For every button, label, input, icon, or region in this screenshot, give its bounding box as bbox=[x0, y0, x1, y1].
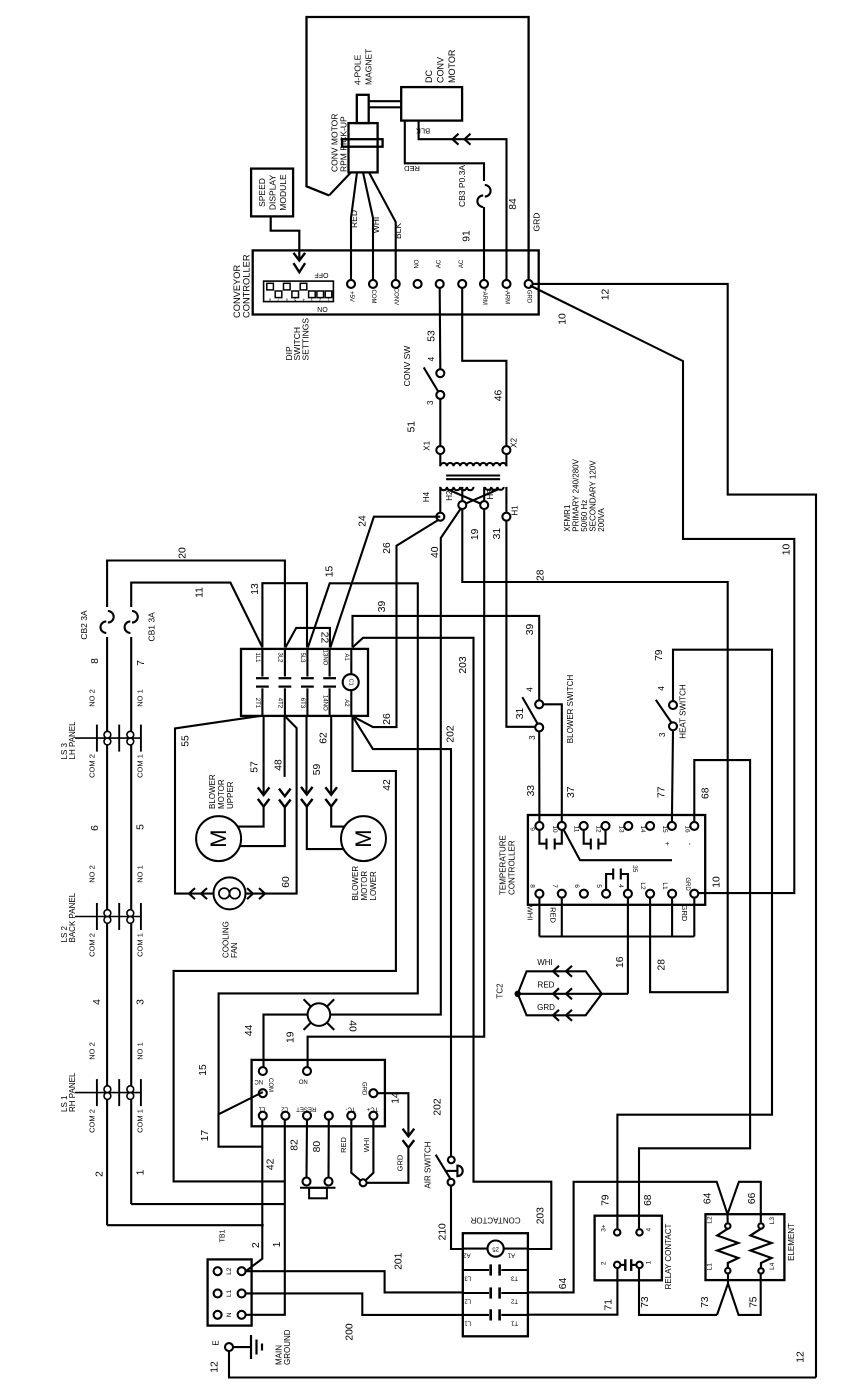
wire 82 to ignition plug bbox=[305, 1120, 308, 1178]
svg-text:COM 1: COM 1 bbox=[136, 1109, 145, 1133]
svg-text:57: 57 bbox=[250, 761, 261, 773]
motor M1 DC CONV MOTOR body bbox=[401, 87, 462, 121]
wire 22 jumper 3L2 to 13NO bbox=[286, 628, 330, 648]
wire 57 from 2T1 to upper blower motor bbox=[263, 716, 265, 795]
svg-text:48: 48 bbox=[274, 759, 285, 771]
wire 28 from XFMR H2 to temp controller L2 bbox=[462, 509, 727, 992]
temp controller terminal 11 bbox=[580, 822, 588, 830]
svg-text:64: 64 bbox=[703, 1192, 714, 1204]
svg-text:4: 4 bbox=[645, 1228, 652, 1232]
flame control terminal NC bbox=[259, 1067, 267, 1075]
limit switch LS 2 contacts right bbox=[127, 910, 134, 917]
svg-text:GRD: GRD bbox=[680, 905, 689, 922]
svg-text:9: 9 bbox=[528, 827, 535, 831]
svg-text:L1: L1 bbox=[258, 1106, 265, 1112]
element resistor L3-L4 bbox=[751, 1229, 772, 1269]
wire WHI from pick-up to controller COM bbox=[363, 172, 373, 280]
relay terminal 2 bbox=[614, 1262, 620, 1268]
relay terminal 3+ bbox=[614, 1229, 620, 1235]
wire 59 from 6T3 to lower blower motor bbox=[305, 716, 307, 795]
temp controller terminal GRD bbox=[690, 890, 698, 898]
svg-text:16: 16 bbox=[615, 956, 626, 968]
wire 73 from relay 1 to element L1 bbox=[639, 1269, 717, 1315]
svg-text:L4: L4 bbox=[769, 1262, 776, 1270]
svg-text:201: 201 bbox=[394, 1252, 405, 1269]
terminal H1 bbox=[502, 513, 510, 521]
wire RED from TC- to sense junction bbox=[351, 1120, 363, 1183]
svg-text:37: 37 bbox=[566, 786, 577, 798]
svg-text:MODULE: MODULE bbox=[278, 174, 288, 211]
svg-text:CONVEYOR: CONVEYOR bbox=[232, 265, 242, 318]
svg-text:33: 33 bbox=[526, 785, 537, 797]
limit switch LS 2 BACK PANEL actuator bbox=[75, 916, 141, 918]
primary crossover jumper A bbox=[447, 489, 485, 505]
wire 1 from LS1 to neutral bbox=[131, 1203, 284, 1205]
svg-text:RED: RED bbox=[538, 981, 555, 990]
limit switch LS 3 contacts bbox=[104, 731, 111, 738]
limit switch LS 3 contacts right bbox=[127, 731, 134, 738]
wire 79 from heat switch to relay contact 3+ bbox=[617, 650, 772, 1229]
svg-text:8: 8 bbox=[90, 658, 101, 664]
svg-text:2: 2 bbox=[601, 1261, 608, 1265]
svg-text:BLOWER SWITCH: BLOWER SWITCH bbox=[566, 675, 575, 744]
svg-text:40: 40 bbox=[430, 546, 441, 558]
wire 80 to ignition plug bbox=[327, 1120, 329, 1178]
cooling fan motor bbox=[214, 877, 246, 909]
heat contactor pole L1/T1 bbox=[463, 1314, 489, 1316]
temp controller terminal 14 bbox=[646, 822, 654, 830]
svg-text:10: 10 bbox=[558, 313, 569, 325]
contactor C1 pole 3L2/4T2 bbox=[284, 649, 286, 677]
conveyor switch CONV SW bbox=[424, 367, 439, 392]
svg-text:H4: H4 bbox=[422, 491, 431, 502]
svg-text:X2: X2 bbox=[510, 437, 519, 447]
svg-text:79: 79 bbox=[601, 1194, 612, 1206]
flame control terminal RESET bbox=[303, 1112, 311, 1120]
svg-text:26: 26 bbox=[382, 713, 393, 725]
svg-text:AIR SWITCH: AIR SWITCH bbox=[424, 1141, 433, 1188]
svg-text:10: 10 bbox=[712, 876, 723, 888]
ignition plug body bbox=[300, 1187, 336, 1189]
flame control terminal L2 bbox=[281, 1112, 289, 1120]
DIP switch toggle 2 bbox=[317, 291, 324, 298]
svg-text:6: 6 bbox=[90, 825, 101, 831]
svg-text:6T3: 6T3 bbox=[299, 698, 305, 709]
wire 16 from temp controller 4 to TC2 bbox=[627, 898, 629, 994]
svg-text:64: 64 bbox=[558, 1278, 569, 1290]
svg-text:CB3 P0.3A: CB3 P0.3A bbox=[457, 165, 467, 207]
motor M3 blower motor lower bbox=[341, 816, 386, 861]
flame control terminal spare bbox=[325, 1112, 333, 1120]
svg-text:RELAY CONTACT: RELAY CONTACT bbox=[664, 1223, 673, 1289]
svg-text:16: 16 bbox=[683, 825, 690, 833]
svg-text:COM 1: COM 1 bbox=[136, 754, 145, 778]
svg-text:E: E bbox=[212, 1340, 221, 1345]
svg-text:COM: COM bbox=[267, 1078, 273, 1092]
controller terminal CONV bbox=[392, 280, 400, 288]
svg-text:-ARM: -ARM bbox=[504, 289, 510, 304]
svg-text:NC: NC bbox=[254, 1078, 263, 1084]
svg-text:AC: AC bbox=[437, 259, 443, 268]
svg-text:68: 68 bbox=[643, 1194, 654, 1206]
temp controller terminal 15 bbox=[668, 822, 676, 830]
svg-text:CONV: CONV bbox=[393, 288, 399, 305]
svg-text:73: 73 bbox=[700, 1296, 711, 1308]
svg-text:NO 2: NO 2 bbox=[88, 865, 97, 883]
svg-text:MOTOR: MOTOR bbox=[360, 871, 369, 901]
svg-text:4: 4 bbox=[617, 884, 624, 888]
svg-text:202: 202 bbox=[433, 1098, 444, 1115]
svg-text:62: 62 bbox=[319, 732, 330, 744]
svg-text:20: 20 bbox=[178, 547, 189, 559]
wire 1/neutral from flame control L2 to TB1 N bbox=[246, 1120, 285, 1315]
svg-text:1: 1 bbox=[136, 1169, 147, 1175]
svg-text:7: 7 bbox=[136, 660, 147, 666]
DIP switch toggle 7 bbox=[275, 291, 282, 298]
svg-text:GRD: GRD bbox=[684, 877, 690, 891]
svg-text:NO 1: NO 1 bbox=[136, 689, 145, 707]
terminal X1 bbox=[436, 446, 444, 454]
wire 19 from XFMR H3 to flame control NO bbox=[308, 509, 485, 1067]
svg-text:COM: COM bbox=[370, 290, 376, 304]
connector chevrons on motor BLK wire bbox=[453, 134, 459, 145]
wire 10 from controller GRD to temperature controller GRD bbox=[530, 286, 794, 894]
limit switch LS 3 LH PANEL actuator bbox=[75, 737, 141, 739]
relay terminal 1 bbox=[636, 1262, 642, 1268]
flame control terminal TC+ bbox=[369, 1112, 377, 1120]
svg-text:12: 12 bbox=[210, 1361, 221, 1373]
wire from speed display module to controller bbox=[271, 216, 300, 260]
svg-text:40: 40 bbox=[347, 1020, 358, 1032]
element terminal L1 bbox=[725, 1268, 730, 1273]
svg-text:L2: L2 bbox=[226, 1267, 233, 1275]
svg-text:L1: L1 bbox=[464, 1319, 471, 1325]
svg-text:GRD: GRD bbox=[532, 213, 542, 232]
svg-text:200VA: 200VA bbox=[597, 508, 606, 532]
svg-text:35: 35 bbox=[631, 865, 638, 873]
temp controller internal contact 5 bbox=[606, 874, 613, 890]
svg-text:+5V: +5V bbox=[348, 291, 354, 302]
svg-text:6: 6 bbox=[286, 297, 288, 301]
temp controller terminal 10 bbox=[558, 822, 566, 830]
pick-up collar bbox=[342, 139, 383, 147]
conveyor motor RPM pick-up body bbox=[349, 123, 378, 172]
svg-text:ELEMENT: ELEMENT bbox=[787, 1223, 796, 1261]
temp controller internal contact 11 bbox=[584, 830, 591, 844]
temp controller terminal 12 bbox=[602, 822, 610, 830]
svg-text:L1: L1 bbox=[226, 1289, 233, 1297]
contactor C1 pole 13NO/14NO bbox=[329, 649, 331, 677]
controller terminal COM bbox=[369, 280, 377, 288]
svg-text:55: 55 bbox=[181, 735, 192, 747]
svg-text:71: 71 bbox=[604, 1299, 615, 1311]
svg-text:NO 2: NO 2 bbox=[88, 1042, 97, 1060]
temp controller thermocouple bus 8-7-L1-GRD bbox=[538, 898, 540, 937]
svg-text:15: 15 bbox=[198, 1064, 209, 1076]
terminal block TB1 box bbox=[208, 1259, 252, 1325]
svg-text:31: 31 bbox=[492, 528, 503, 540]
wire 202 from coil A2 to air switch bbox=[353, 716, 452, 1156]
svg-text:UPPER: UPPER bbox=[226, 781, 235, 809]
transformer core bbox=[446, 474, 500, 476]
flame control terminal TC- bbox=[347, 1112, 355, 1120]
temp controller internal wire from 10 bbox=[564, 830, 673, 861]
svg-text:15: 15 bbox=[661, 825, 668, 833]
temp controller internal contact 12 bbox=[598, 830, 605, 844]
svg-text:COM 2: COM 2 bbox=[88, 933, 97, 957]
TB1 terminal L2 bbox=[214, 1267, 222, 1275]
wire 24 from XFMR H4 to 13NO bbox=[330, 517, 440, 648]
svg-text:L3: L3 bbox=[464, 1275, 471, 1281]
svg-text:12: 12 bbox=[595, 825, 602, 833]
terminal H2 bbox=[458, 501, 466, 509]
temperature controller box bbox=[528, 815, 705, 905]
svg-text:COM 2: COM 2 bbox=[88, 754, 97, 778]
svg-text:NO 1: NO 1 bbox=[136, 1042, 145, 1060]
svg-text:59: 59 bbox=[312, 764, 323, 776]
svg-text:L2: L2 bbox=[707, 1216, 714, 1224]
circuit breaker CB1 3A bbox=[132, 611, 138, 623]
svg-text:TC2: TC2 bbox=[496, 983, 505, 999]
wire 44 lamp to flame control NC bbox=[264, 1015, 308, 1068]
wire 68 from temp controller 16 to relay contact 4 bbox=[639, 760, 750, 1228]
wire 17 COM to L1 jumper bbox=[219, 1092, 263, 1147]
temp controller terminal L2 bbox=[646, 890, 654, 898]
motor shaft coupling bbox=[369, 100, 402, 102]
conveyor controller U1 box bbox=[253, 250, 539, 314]
svg-text:31: 31 bbox=[515, 708, 526, 720]
svg-text:C1: C1 bbox=[348, 679, 354, 686]
contactor C1 pole 5L3/6T3 bbox=[306, 649, 308, 677]
element resistor L2-L1 bbox=[717, 1229, 738, 1268]
controller terminal +ARM bbox=[480, 280, 488, 288]
svg-text:42: 42 bbox=[382, 779, 393, 791]
svg-text:73: 73 bbox=[640, 1296, 651, 1308]
wire 2 from flame control L1 to TB1 L2 bbox=[246, 1120, 262, 1272]
contactor C1 coil bbox=[350, 649, 352, 674]
svg-text:DISPLAY: DISPLAY bbox=[268, 175, 278, 211]
wire RED from pick-up to controller +5V bbox=[351, 172, 357, 280]
svg-text:12: 12 bbox=[796, 1351, 807, 1363]
svg-text:46: 46 bbox=[494, 390, 505, 402]
transformer XFMR1 secondary winding bbox=[439, 454, 441, 466]
svg-text:TC+: TC+ bbox=[366, 1106, 378, 1112]
flame sense junction bbox=[360, 1179, 367, 1186]
svg-text:M: M bbox=[206, 829, 231, 847]
wire 33 from blower switch to temp controller 9 bbox=[538, 731, 540, 822]
svg-text:5: 5 bbox=[136, 824, 147, 830]
svg-text:H1: H1 bbox=[511, 505, 520, 516]
ignition plug pins bbox=[303, 1178, 311, 1186]
svg-text:HEAT SWITCH: HEAT SWITCH bbox=[679, 684, 688, 739]
transformer primary winding bbox=[440, 487, 473, 490]
svg-text:3: 3 bbox=[658, 732, 667, 737]
connector chevrons into controller bbox=[294, 253, 306, 261]
svg-text:203: 203 bbox=[458, 656, 469, 673]
DIP switch toggle 4 bbox=[300, 283, 307, 290]
wire 210 from air switch to heat contactor coil bbox=[451, 1185, 462, 1249]
temp controller internal contact 9 bbox=[539, 830, 546, 844]
svg-text:RESET: RESET bbox=[296, 1106, 316, 1112]
svg-text:19: 19 bbox=[286, 1031, 297, 1043]
wire 77 from heat switch to temp controller 15 bbox=[672, 730, 673, 822]
controller terminal +5V bbox=[347, 280, 355, 288]
svg-text:L2: L2 bbox=[639, 882, 646, 890]
air switch bbox=[436, 1155, 451, 1180]
cooling fan connector chevrons bbox=[189, 888, 195, 899]
svg-text:4: 4 bbox=[427, 356, 436, 361]
svg-text:NO 2: NO 2 bbox=[88, 689, 97, 707]
svg-text:3: 3 bbox=[528, 735, 537, 740]
svg-text:11: 11 bbox=[573, 826, 580, 833]
svg-text:2: 2 bbox=[319, 297, 321, 301]
svg-text:8: 8 bbox=[269, 297, 271, 301]
svg-text:39: 39 bbox=[525, 624, 536, 636]
TC2 RED lead bbox=[518, 993, 628, 995]
svg-text:MOTOR: MOTOR bbox=[447, 49, 457, 83]
DIP switch block bbox=[264, 281, 334, 302]
svg-text:77: 77 bbox=[657, 786, 668, 798]
wire 62 from 14NO to lower blower motor bbox=[330, 716, 332, 795]
motor M2 blower motor upper bbox=[196, 816, 241, 861]
svg-text:2T1: 2T1 bbox=[254, 698, 260, 709]
svg-text:82: 82 bbox=[290, 1139, 301, 1151]
wire 39 from coil A1 to blower switch bbox=[353, 616, 540, 700]
temp controller terminal L1 bbox=[668, 890, 676, 898]
wire 73 leg to element L1 bbox=[717, 1284, 728, 1315]
svg-text:RED: RED bbox=[549, 907, 558, 923]
svg-text:WHI: WHI bbox=[526, 906, 535, 921]
wire 75 from element L4 to wire 73 bbox=[728, 1274, 761, 1315]
svg-text:44: 44 bbox=[244, 1024, 255, 1036]
thermocouple TC2 junction bbox=[515, 991, 521, 997]
relay terminal 4 bbox=[636, 1229, 642, 1235]
svg-text:M: M bbox=[351, 829, 376, 847]
svg-text:25: 25 bbox=[492, 1246, 499, 1252]
temp controller terminal 7 bbox=[558, 890, 566, 898]
svg-text:3+: 3+ bbox=[601, 1224, 608, 1232]
svg-text:NO 1: NO 1 bbox=[136, 865, 145, 883]
main ground terminal E bbox=[225, 1343, 233, 1351]
limit switch LS 2 contacts bbox=[104, 910, 111, 917]
svg-text:ON: ON bbox=[317, 305, 328, 312]
svg-text:79: 79 bbox=[654, 649, 665, 661]
svg-text:19: 19 bbox=[470, 528, 481, 540]
DIP switch toggle 8 bbox=[267, 283, 274, 290]
svg-text:4: 4 bbox=[657, 686, 666, 691]
svg-text:+: + bbox=[665, 842, 672, 846]
flame control module box bbox=[252, 1060, 385, 1126]
svg-text:CONTROLLER: CONTROLLER bbox=[242, 254, 252, 318]
wire 53 from controller AC to CONV SW bbox=[439, 288, 442, 369]
svg-text:202: 202 bbox=[445, 725, 456, 742]
svg-text:CB1 3A: CB1 3A bbox=[147, 612, 157, 642]
svg-text:203: 203 bbox=[536, 1207, 547, 1224]
svg-text:8: 8 bbox=[528, 884, 535, 888]
svg-text:210: 210 bbox=[438, 1223, 449, 1240]
svg-text:200: 200 bbox=[345, 1323, 356, 1340]
wire WHI from TC+ to sense junction bbox=[363, 1120, 373, 1183]
svg-text:22: 22 bbox=[319, 632, 330, 644]
svg-text:CONV: CONV bbox=[436, 57, 446, 83]
wire shield from pick-up to ground loop bbox=[329, 172, 351, 195]
svg-text:SETTINGS: SETTINGS bbox=[300, 318, 310, 361]
limit switch LS 1 contacts right bbox=[127, 1086, 134, 1093]
wire RED from motor to circuit breaker CB3 (wire 91) bbox=[405, 121, 484, 181]
controller terminal pin bbox=[436, 280, 444, 288]
svg-text:X1: X1 bbox=[423, 440, 432, 450]
TB1 terminal N bbox=[214, 1311, 222, 1319]
svg-text:GRD: GRD bbox=[396, 1154, 405, 1171]
svg-text:60: 60 bbox=[281, 876, 292, 888]
wire 11 from CB1 to contactor 1L1 bbox=[131, 583, 262, 648]
svg-text:2: 2 bbox=[251, 1242, 262, 1248]
svg-text:7: 7 bbox=[551, 884, 558, 888]
controller terminal pin bbox=[458, 280, 466, 288]
temp controller internal contact 4 bbox=[621, 874, 628, 890]
svg-text:LOWER: LOWER bbox=[369, 871, 378, 901]
svg-text:GROUND: GROUND bbox=[283, 1329, 292, 1365]
flame control terminal COM bbox=[259, 1089, 267, 1097]
wire 55 from 2T1 to cooling fan bbox=[175, 716, 261, 894]
svg-text:CONTACTOR: CONTACTOR bbox=[470, 1215, 520, 1224]
temp controller terminal 4 bbox=[624, 890, 632, 898]
svg-text:66: 66 bbox=[747, 1192, 758, 1204]
svg-text:L1: L1 bbox=[707, 1263, 714, 1271]
svg-text:7: 7 bbox=[277, 297, 279, 301]
4-pole magnet bbox=[357, 95, 369, 123]
controller terminal -ARM bbox=[503, 280, 511, 288]
svg-text:4T2: 4T2 bbox=[277, 698, 283, 709]
svg-text:13: 13 bbox=[250, 583, 261, 595]
temp controller terminal 13 bbox=[624, 822, 632, 830]
svg-text:COM 2: COM 2 bbox=[88, 1109, 97, 1133]
svg-text:5: 5 bbox=[294, 297, 296, 301]
svg-text:AC: AC bbox=[459, 259, 465, 268]
heating element box bbox=[706, 1214, 785, 1280]
TC2 WHI lead bbox=[518, 971, 602, 994]
terminal X2 bbox=[502, 446, 510, 454]
indicator lamp bbox=[308, 1003, 331, 1026]
svg-text:6: 6 bbox=[573, 884, 580, 888]
svg-text:BACK PANEL: BACK PANEL bbox=[68, 892, 77, 942]
svg-text:84: 84 bbox=[508, 198, 519, 210]
svg-text:L3: L3 bbox=[769, 1217, 776, 1225]
svg-text:A2: A2 bbox=[343, 699, 349, 707]
svg-text:LH PANEL: LH PANEL bbox=[68, 721, 77, 760]
svg-text:T1: T1 bbox=[510, 1319, 518, 1325]
svg-text:28: 28 bbox=[536, 569, 547, 581]
svg-text:RPM PICK-UP: RPM PICK-UP bbox=[339, 116, 349, 172]
wire 48 from 4T2 to upper blower motor bbox=[284, 716, 286, 777]
circuit breaker CB2 3A bbox=[108, 611, 114, 623]
wire 51 from CONV SW to X1 bbox=[439, 399, 441, 446]
svg-text:MAGNET: MAGNET bbox=[364, 49, 374, 85]
temp controller terminal 8 bbox=[535, 890, 543, 898]
svg-text:GRD: GRD bbox=[360, 1082, 366, 1096]
svg-text:4: 4 bbox=[302, 297, 304, 301]
blower switch bbox=[522, 697, 537, 723]
svg-text:T2: T2 bbox=[510, 1298, 518, 1304]
svg-text:OFF: OFF bbox=[315, 271, 329, 278]
ground shield loop around conveyor motor assembly bbox=[307, 17, 529, 280]
svg-text:4: 4 bbox=[92, 999, 103, 1005]
svg-text:5L3: 5L3 bbox=[299, 652, 305, 663]
wire 31 from XFMR H1 to blower switch bbox=[506, 521, 535, 727]
svg-text:14: 14 bbox=[391, 1092, 402, 1104]
temp controller terminal 16 bbox=[690, 822, 698, 830]
wire 203 from coil A1 to heat contactor A1 bbox=[353, 638, 552, 1249]
